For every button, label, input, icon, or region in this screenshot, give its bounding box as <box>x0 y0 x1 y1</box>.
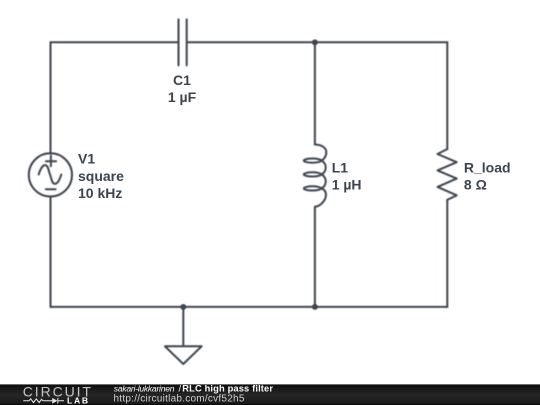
svg-text:1 µF: 1 µF <box>168 89 197 105</box>
wire ground stub <box>182 307 184 346</box>
logo diode bar and wire <box>58 398 64 404</box>
wire top-left horizontal <box>51 41 179 43</box>
svg-text:http://circuitlab.com/cvf52h5: http://circuitlab.com/cvf52h5 <box>114 393 245 404</box>
junction ground <box>180 304 186 310</box>
svg-text:V1: V1 <box>78 151 95 167</box>
voltage source V1 <box>29 153 72 196</box>
wire middle vertical upper <box>314 42 316 144</box>
svg-text:1 µH: 1 µH <box>332 176 362 192</box>
resistor R_load <box>438 149 457 200</box>
wire top-right horizontal <box>188 41 448 43</box>
inductor L1 <box>304 145 327 207</box>
svg-text:R_load: R_load <box>464 159 511 175</box>
svg-text:8 Ω: 8 Ω <box>464 176 487 192</box>
wire middle vertical lower <box>314 207 316 307</box>
wire bottom horizontal <box>51 306 448 308</box>
logo diode <box>52 398 57 404</box>
wire right vertical lower <box>446 200 448 307</box>
capacitor C1 <box>179 19 187 65</box>
wire left vertical upper <box>50 42 52 154</box>
svg-text:sakari-lukkarinen / RLC high p: sakari-lukkarinen / RLC high pass filter <box>114 383 274 393</box>
junction top (inductor/top wire) <box>312 39 318 45</box>
svg-text:square: square <box>78 168 124 184</box>
svg-text:10 kHz: 10 kHz <box>78 185 122 201</box>
junction inductor bottom <box>312 304 318 310</box>
ground <box>165 346 202 364</box>
wire left vertical lower <box>50 196 52 307</box>
svg-text:LAB: LAB <box>67 396 90 405</box>
svg-text:L1: L1 <box>332 159 349 175</box>
wire right vertical upper <box>446 42 448 149</box>
svg-text:C1: C1 <box>173 72 191 88</box>
logo resistor zigzag <box>23 399 52 403</box>
